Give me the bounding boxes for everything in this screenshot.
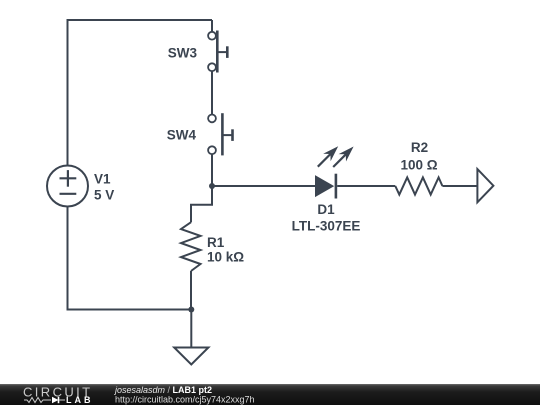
svg-text:R1: R1 — [207, 235, 225, 250]
label R2 — [411, 140, 428, 155]
resistor R2 — [395, 177, 442, 194]
svg-text:5 V: 5 V — [94, 187, 114, 202]
wire — [190, 310, 192, 348]
wire — [211, 20, 213, 32]
resistor R1 — [181, 222, 201, 271]
svg-text:10 kΩ: 10 kΩ — [207, 249, 244, 264]
wire — [212, 185, 315, 187]
LED D1 — [315, 146, 354, 198]
switch SW4 — [208, 113, 232, 155]
footer logo LAB — [66, 395, 94, 405]
label SW4 — [167, 128, 197, 143]
wire — [211, 71, 213, 114]
svg-text:http://circuitlab.com/cj5y74x2: http://circuitlab.com/cj5y74x2xxg7h — [115, 394, 255, 404]
node B junction — [188, 307, 194, 313]
label D1 — [317, 202, 335, 217]
label SW3 — [168, 45, 198, 60]
footer logo CIRCUIT — [23, 385, 93, 400]
svg-text:100 Ω: 100 Ω — [400, 158, 437, 173]
footer url text — [115, 394, 255, 404]
label D1 value LTL-307EE — [292, 219, 361, 234]
wire — [191, 186, 212, 222]
switch SW3 — [208, 31, 227, 73]
svg-text:LTL-307EE: LTL-307EE — [292, 219, 361, 234]
svg-text:R2: R2 — [411, 140, 428, 155]
label V1 — [94, 171, 111, 186]
footer title text — [114, 385, 212, 395]
svg-text:D1: D1 — [317, 202, 335, 217]
voltage source V1 — [47, 166, 88, 207]
label R1 — [207, 235, 225, 250]
wire — [68, 20, 213, 166]
wire — [211, 154, 213, 186]
footer bar — [0, 384, 540, 405]
footer logo squiggle — [24, 397, 65, 403]
output flag terminal — [477, 169, 493, 202]
svg-text:SW4: SW4 — [167, 128, 197, 143]
label R2 value 100 ohm — [400, 158, 437, 173]
label R1 value 10 kohm — [207, 249, 244, 264]
svg-text:V1: V1 — [94, 171, 111, 186]
wire — [68, 207, 192, 310]
ground — [174, 348, 208, 365]
wire — [337, 185, 395, 187]
wire — [442, 185, 477, 187]
label V1 value 5 V — [94, 187, 114, 202]
svg-text:LAB: LAB — [66, 395, 94, 405]
wire — [190, 271, 192, 310]
node A junction — [209, 183, 215, 189]
svg-text:SW3: SW3 — [168, 45, 198, 60]
